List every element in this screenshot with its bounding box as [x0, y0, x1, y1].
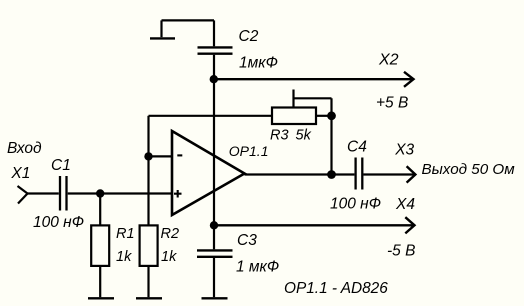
- resistor R3: [272, 108, 316, 125]
- node junction V+: [210, 75, 218, 83]
- wire power rail through op-amp: [213, 79, 215, 225]
- connector X4 arrowhead: [405, 217, 414, 233]
- svg-text:R2: R2: [161, 226, 180, 242]
- wire X4 rail: [214, 224, 414, 226]
- node junction output: [327, 170, 336, 179]
- svg-text:+5 В: +5 В: [376, 95, 408, 112]
- svg-text:X3: X3: [394, 142, 414, 159]
- svg-text:1k: 1k: [161, 249, 177, 265]
- ground: [88, 297, 114, 299]
- ground: [136, 297, 162, 299]
- svg-text:C4: C4: [347, 138, 367, 155]
- wire ground drop: [160, 20, 162, 37]
- node junction feedback/output tap: [327, 111, 336, 120]
- svg-text:-5 В: -5 В: [387, 243, 415, 260]
- capacitor C1: [60, 176, 67, 211]
- svg-text:5k: 5k: [296, 127, 312, 143]
- pin - mark: [177, 154, 182, 156]
- svg-text:C2: C2: [239, 28, 259, 45]
- svg-text:X1: X1: [10, 165, 30, 182]
- svg-text:X2: X2: [378, 52, 399, 69]
- svg-text:100 нФ: 100 нФ: [330, 196, 381, 213]
- wire inverting input stub: [149, 155, 173, 157]
- node junction V-: [210, 221, 218, 229]
- node junction inverting: [144, 152, 152, 160]
- wire feedback to output: [330, 116, 332, 175]
- wire R1 top lead: [99, 194, 101, 226]
- svg-text:1k: 1k: [116, 249, 132, 265]
- wire top horizontal to ground: [162, 19, 215, 21]
- svg-text:R3: R3: [270, 127, 289, 143]
- capacitor C4: [356, 158, 363, 190]
- svg-text:1 мкФ: 1 мкФ: [236, 259, 279, 276]
- svg-text:OP1.1 - AD826: OP1.1 - AD826: [284, 280, 388, 297]
- svg-text:C1: C1: [51, 157, 71, 174]
- wire R2 vertical: [147, 156, 149, 225]
- svg-text:Вход: Вход: [7, 140, 42, 157]
- pin + mark: [174, 190, 182, 198]
- svg-text:1мкФ: 1мкФ: [239, 55, 278, 72]
- node junction R1 top: [96, 189, 104, 197]
- wire input to +: [68, 192, 172, 194]
- connector X2 arrowhead: [404, 72, 414, 87]
- wire X2 rail: [214, 78, 413, 80]
- svg-text:X4: X4: [395, 196, 415, 213]
- svg-text:R1: R1: [116, 226, 135, 242]
- wire feedback vertical: [147, 116, 149, 157]
- wire R2 bottom lead: [147, 266, 149, 297]
- svg-text:OP1.1: OP1.1: [229, 143, 269, 159]
- ground: [202, 297, 228, 299]
- svg-text:100 нФ: 100 нФ: [33, 214, 84, 231]
- wire R3 wiper tap: [294, 90, 332, 116]
- capacitor C3: [197, 225, 233, 297]
- op-amp OP1.1: [172, 131, 245, 215]
- wire output: [245, 173, 355, 175]
- capacitor C2: [198, 20, 233, 78]
- wire R3 right lead: [316, 115, 332, 117]
- wire X3: [364, 173, 415, 175]
- wire feedback horizontal: [149, 115, 273, 117]
- connector X1 chevron: [18, 186, 28, 204]
- wire input: [28, 192, 59, 194]
- ground: [150, 37, 175, 39]
- resistor R2: [140, 225, 158, 266]
- svg-text:C3: C3: [237, 232, 257, 249]
- resistor R1: [91, 225, 109, 266]
- connector X3 arrowhead: [407, 166, 416, 182]
- svg-text:Выход 50 Ом: Выход 50 Ом: [422, 161, 516, 178]
- wire R1 bottom lead: [99, 266, 101, 297]
